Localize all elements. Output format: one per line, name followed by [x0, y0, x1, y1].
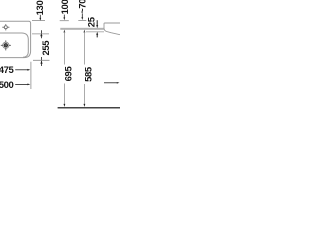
dim 500 arrow right — [15, 83, 27, 85]
dim 585 line upper — [83, 32, 85, 65]
short extension line y31.8 — [86, 31, 104, 33]
svg-text:695: 695 — [63, 66, 74, 82]
dim 130/255 shared arrows at y33.9 — [40, 30, 42, 38]
dim 100 arrow down — [63, 15, 65, 18]
plan view: inner bowl edge — [0, 33, 28, 57]
dim 585 line lower — [83, 84, 85, 105]
dim 695 line lower — [63, 84, 65, 105]
dim 25 upper arrow — [96, 20, 98, 25]
vertical extension line x30.9 — [30, 62, 32, 89]
side profile of basin — [104, 23, 120, 35]
svg-text:~70: ~70 — [78, 0, 89, 14]
floor line — [58, 107, 120, 109]
faucet hole symbol — [2, 24, 9, 30]
svg-text:25: 25 — [87, 16, 98, 27]
tick under 100 — [60, 20, 69, 22]
extension line y60.3 — [33, 59, 50, 61]
dim 695 top arrow — [64, 30, 66, 33]
svg-text:255: 255 — [41, 40, 52, 56]
dim 585 bottom arrow — [84, 104, 86, 107]
svg-text:500: 500 — [0, 80, 14, 91]
dim 475 arrow right — [15, 69, 27, 71]
dim 695 bottom arrow — [64, 104, 66, 107]
extension line y33.9 — [32, 33, 49, 35]
dim ~70 arrow down — [81, 14, 83, 17]
long extension line B — [60, 28, 104, 30]
svg-text:130: 130 — [35, 1, 46, 16]
svg-text:585: 585 — [83, 66, 94, 82]
drain symbol — [1, 40, 11, 50]
dim 255 bottom arrow — [41, 57, 43, 66]
leader arrow right — [104, 82, 117, 84]
tick under ~70 — [78, 19, 86, 21]
svg-text:475: 475 — [0, 65, 15, 76]
extension line y20.6 — [32, 20, 45, 22]
long extension line A — [60, 27, 104, 29]
dim 25 lower arrow — [96, 32, 98, 35]
svg-text:100: 100 — [60, 0, 71, 14]
plan view: basin outer rim outline — [0, 21, 31, 57]
dim 695 line upper — [63, 32, 65, 65]
dim 585 top arrow — [84, 30, 86, 33]
dim 130 arrow down — [39, 15, 41, 18]
